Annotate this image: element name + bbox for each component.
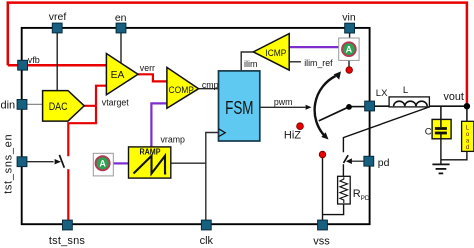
ammeter A2 at RAMP <box>93 153 113 176</box>
svg-text:din: din <box>1 99 16 111</box>
wire pwm FSM to switch with arrow <box>260 105 312 110</box>
svg-text:COMP: COMP <box>169 85 194 95</box>
wire purple ammeter2 to RAMP <box>113 162 128 164</box>
capacitor C1 <box>432 119 451 138</box>
comparator COMP <box>167 67 199 108</box>
throw dot low-side <box>319 151 326 158</box>
svg-text:A: A <box>346 44 353 54</box>
wire vout to Load <box>466 106 468 121</box>
wire Load to ground <box>441 151 467 159</box>
throw dot HiZ <box>297 123 304 130</box>
svg-text:tst_sns: tst_sns <box>49 235 86 247</box>
svg-text:vramp: vramp <box>161 134 186 144</box>
wire ammeter to throw dot <box>348 60 350 66</box>
wire ilim ICMP to FSM <box>241 52 253 71</box>
wire red verr EA to COMP <box>138 74 167 81</box>
wire low-side throw dot to vss node <box>322 158 324 220</box>
svg-text:d: d <box>466 145 469 151</box>
FSM U2 <box>219 71 260 141</box>
svg-text:cmp: cmp <box>202 80 219 90</box>
junction dot LX <box>346 104 352 110</box>
chip boundary box <box>22 28 370 224</box>
wire vref to DAC <box>56 33 58 91</box>
junction dot vout <box>464 103 470 109</box>
switch arm pwm at LX <box>319 107 349 121</box>
wire purple vramp RAMP to COMP <box>151 103 167 146</box>
wire vout to capacitor C <box>440 106 442 120</box>
DAC U1 <box>43 91 85 122</box>
RAMP generator U3 <box>129 147 171 178</box>
wire red DAC output vtarget to EA <box>84 86 106 106</box>
svg-text:C: C <box>425 127 432 138</box>
svg-text:vref: vref <box>49 11 67 23</box>
svg-text:vtarget: vtarget <box>102 98 129 108</box>
svg-text:LX: LX <box>376 88 388 99</box>
pin en <box>116 23 126 33</box>
svg-text:vss: vss <box>313 235 330 247</box>
wire pd switch to Rpd <box>342 164 344 176</box>
ground <box>432 164 449 173</box>
wire clk to FSM and RAMP <box>171 133 219 221</box>
svg-text:vfb: vfb <box>28 55 40 65</box>
wire en to EA <box>120 33 122 63</box>
inductor L1 <box>389 97 429 107</box>
svg-text:HiZ: HiZ <box>284 130 301 142</box>
pin vss <box>318 220 328 230</box>
resistor Rpd <box>338 176 351 204</box>
wire red vtarget staircase to switch <box>68 106 96 156</box>
pin vfb <box>18 60 28 70</box>
wire vin to ammeter <box>349 33 351 38</box>
wire din to DAC <box>27 103 43 105</box>
pin vref <box>52 23 62 33</box>
switch S1 tst_sns arm <box>59 155 64 168</box>
wire purple ammeter to ICMP <box>289 46 339 48</box>
svg-text:PD: PD <box>361 195 370 202</box>
wire red feedback loop vout-to-vfb <box>8 3 467 105</box>
svg-text:R: R <box>353 188 361 200</box>
svg-text:vout: vout <box>444 91 464 103</box>
pin clk <box>201 220 211 230</box>
switch S2 pd arm <box>344 155 349 163</box>
pin LX <box>365 101 375 111</box>
svg-text:pd: pd <box>378 157 390 169</box>
svg-text:tst_sns_en: tst_sns_en <box>3 134 15 194</box>
svg-text:en: en <box>115 12 127 24</box>
svg-text:verr: verr <box>140 63 155 73</box>
svg-text:L: L <box>403 85 408 96</box>
wire ilim_ref stub <box>289 61 301 63</box>
wire tst_sns_en control with arrow <box>27 159 61 164</box>
wire diagonal vout to pd switch <box>343 107 429 152</box>
throw dot high-side <box>346 67 353 74</box>
ammeter A1 at vin <box>339 38 359 60</box>
wire cmp COMP to FSM <box>199 88 219 90</box>
svg-text:ilim: ilim <box>244 59 258 69</box>
FSM clock wedge pin <box>219 129 226 137</box>
label Rpd <box>353 188 370 202</box>
wire pd control with arrow <box>346 158 364 164</box>
svg-text:ICMP: ICMP <box>265 48 286 58</box>
svg-text:clk: clk <box>200 235 214 247</box>
svg-text:EA: EA <box>111 70 125 81</box>
wire capacitor C to ground <box>440 139 442 164</box>
wire LX junction to LX node <box>349 106 365 108</box>
wire red switch to tst_sns node <box>67 169 69 220</box>
pin pd <box>364 156 374 166</box>
svg-text:A: A <box>99 158 106 168</box>
svg-text:DAC: DAC <box>49 101 68 113</box>
svg-text:RAMP: RAMP <box>140 148 162 157</box>
switch arc arrow hi-lo <box>315 71 341 139</box>
pin vin <box>345 23 355 33</box>
comparator ICMP <box>253 34 289 71</box>
svg-text:vin: vin <box>342 12 356 24</box>
svg-text:pwm: pwm <box>274 97 293 107</box>
Load block <box>462 121 474 151</box>
svg-text:ilim_ref: ilim_ref <box>304 58 333 68</box>
op-amp EA error amplifier <box>106 54 138 95</box>
pin tst_sns <box>63 220 73 230</box>
svg-text:FSM: FSM <box>225 98 253 118</box>
pin tst_sns_en <box>17 157 27 167</box>
wire vout rail <box>375 105 467 107</box>
wire Rpd bottom to vss <box>323 204 344 215</box>
pin din <box>17 100 27 110</box>
